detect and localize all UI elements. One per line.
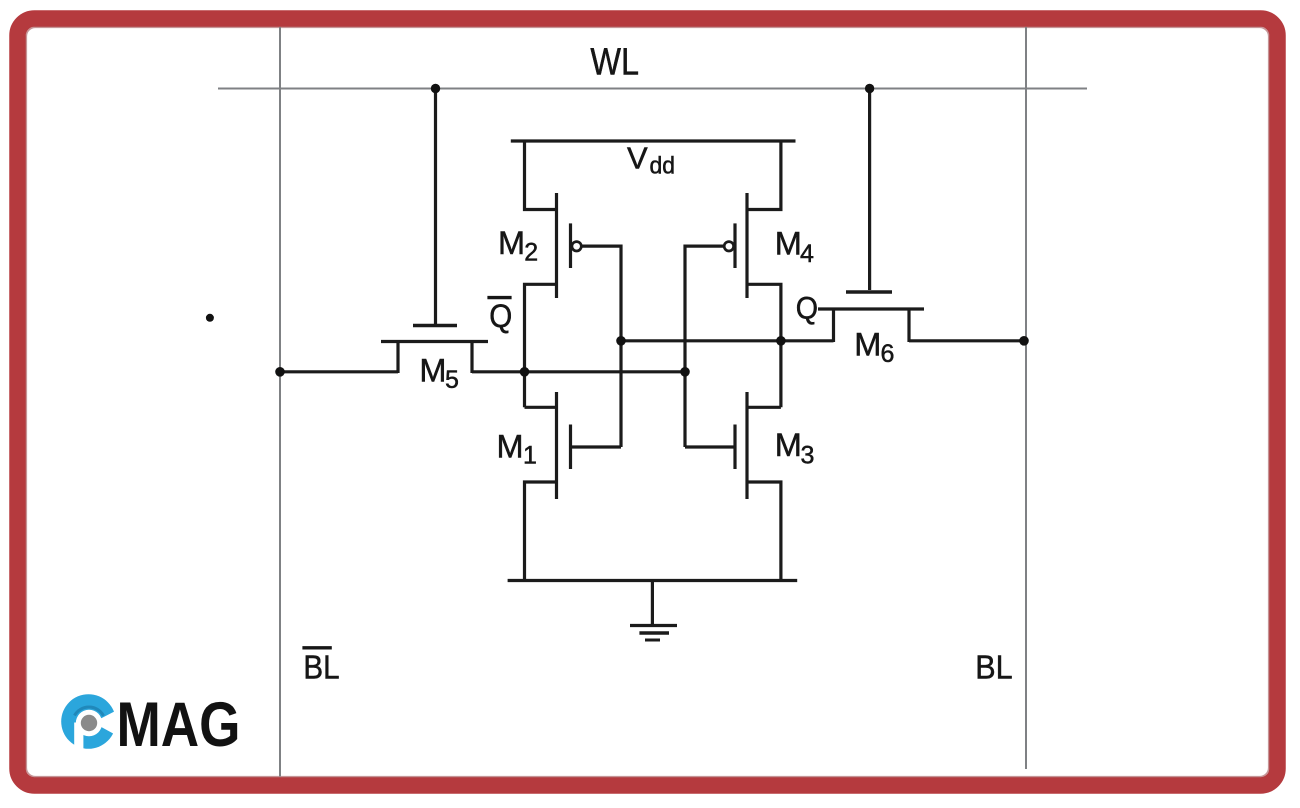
svg-text:M: M (775, 226, 802, 262)
svg-text:M: M (775, 427, 802, 463)
svg-text:WL: WL (590, 41, 639, 83)
wire M2 drain to node Qbar (525, 284, 557, 407)
wire BLbar to M5 source (280, 370, 398, 373)
wire M1 gate (571, 445, 622, 448)
wire M6 gate to WL (868, 89, 871, 291)
label M1 (497, 428, 537, 469)
svg-text:BL: BL (303, 648, 339, 685)
transistor M1 (557, 392, 571, 499)
svg-text:2: 2 (524, 239, 538, 267)
label M5 (419, 353, 459, 394)
wire Vdd to M2 source (525, 141, 557, 210)
wire node Qbar (472, 370, 685, 373)
label M2 (498, 225, 538, 267)
junction WL / M6 gate (865, 84, 874, 93)
svg-text:M: M (497, 428, 524, 464)
wire M1 drain (525, 406, 557, 409)
svg-text:BL: BL (975, 649, 1012, 686)
svg-text:dd: dd (650, 153, 676, 180)
transistor M2 (557, 193, 582, 298)
transistor M4 (724, 193, 747, 298)
svg-text:5: 5 (445, 366, 459, 394)
node dot (stray) (206, 314, 214, 322)
svg-text:M: M (854, 327, 881, 363)
label M4 (775, 226, 814, 268)
logo CMAG (61, 690, 240, 760)
wire M5 gate to WL (434, 89, 437, 325)
svg-text:Q: Q (796, 290, 818, 326)
label Vdd (627, 141, 675, 180)
wire M1 source to ground rail (525, 482, 557, 581)
wire Vdd to M4 source (747, 141, 781, 210)
svg-text:3: 3 (801, 441, 815, 469)
label BLbar (302, 648, 339, 686)
svg-text:M: M (419, 353, 446, 389)
svg-text:Q: Q (489, 298, 512, 334)
transistor M6 (818, 292, 924, 342)
junction WL / M5 gate (431, 84, 440, 93)
transistor M3 (735, 392, 747, 499)
junction Q / M2 gate line (616, 336, 626, 346)
svg-text:V: V (627, 141, 648, 176)
svg-text:1: 1 (523, 441, 537, 469)
wire M6 drain to BL (909, 339, 1024, 342)
wire M3 gate (685, 445, 735, 448)
wire M3 source to ground rail (747, 482, 781, 581)
wire M2 gate to node Q (cross-couple) (582, 246, 621, 447)
ground rail (508, 579, 798, 582)
svg-text:M: M (498, 225, 525, 261)
wire node Q (621, 339, 834, 342)
wire M3 drain (747, 406, 781, 409)
Vdd rail (511, 139, 796, 142)
svg-text:MAG: MAG (117, 690, 241, 760)
svg-text:4: 4 (800, 240, 814, 268)
label M6 (854, 327, 894, 368)
svg-text:6: 6 (881, 340, 895, 368)
junction BLbar / M5 source (275, 367, 285, 377)
net BLbar wire (279, 27, 281, 777)
net WL wire (218, 88, 1087, 90)
ground (630, 581, 677, 641)
junction BL / M6 drain (1019, 336, 1029, 346)
label M3 (775, 427, 815, 469)
net BL wire (1025, 27, 1027, 769)
label Qbar (487, 298, 512, 334)
junction Qbar / inverter1 drains (520, 367, 530, 377)
wire M4 gate to node Qbar (cross-couple) (685, 246, 724, 447)
junction Qbar / M4 gate line (680, 367, 690, 377)
transistor M5 (381, 326, 488, 374)
junction Q / inverter2 drains (776, 336, 786, 346)
wire M4 drain to node Q (747, 284, 781, 407)
